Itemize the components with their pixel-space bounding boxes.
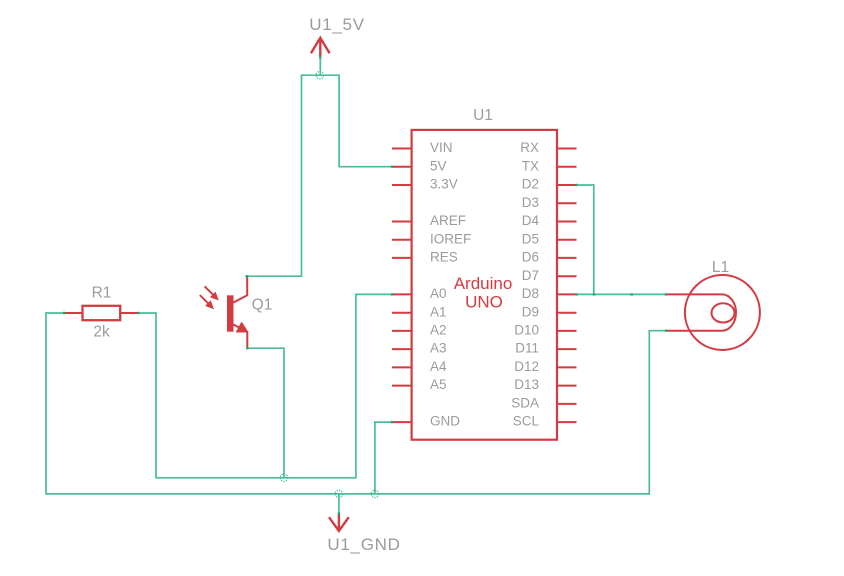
pin A5 (392, 385, 412, 387)
svg-text:D7: D7 (522, 268, 539, 283)
wire ground stem (338, 494, 340, 514)
svg-text:R1: R1 (92, 285, 112, 302)
pin A4 (392, 366, 412, 368)
pin D2 (557, 184, 577, 186)
svg-text:D2: D2 (522, 177, 539, 192)
svg-text:VIN: VIN (430, 140, 453, 155)
wire R1 right to Q1 emitter net to A0 (139, 294, 392, 477)
pin D4 (557, 221, 577, 223)
svg-text:A0: A0 (430, 286, 447, 301)
svg-text:A5: A5 (430, 377, 447, 392)
pin D10 (557, 330, 577, 332)
power symbol U1_5V arrow (311, 38, 330, 57)
resistor R1 (64, 306, 140, 320)
svg-text:3.3V: 3.3V (430, 177, 458, 192)
svg-text:TX: TX (522, 158, 539, 173)
junction ground symbol node (335, 490, 342, 497)
svg-text:RX: RX (520, 140, 539, 155)
pin SCL (557, 421, 577, 423)
speaker L1 (666, 275, 760, 350)
junction GND pin node (371, 490, 378, 497)
wire power stem (319, 57, 321, 75)
pin D13 (557, 385, 577, 387)
pin RX (557, 148, 577, 150)
pin D8 (557, 293, 577, 295)
svg-text:D3: D3 (522, 195, 539, 210)
svg-text:D10: D10 (514, 323, 539, 338)
svg-text:A1: A1 (430, 304, 447, 319)
pin SDA (557, 403, 577, 405)
pin AREF (392, 221, 412, 223)
pin TX (557, 166, 577, 168)
pin D5 (557, 239, 577, 241)
wire D8 to L1 top (577, 293, 667, 295)
svg-text:D9: D9 (522, 304, 539, 319)
svg-text:D5: D5 (522, 231, 539, 246)
svg-text:2k: 2k (93, 324, 110, 341)
svg-text:SCL: SCL (513, 414, 540, 429)
wire Q1 emitter to bottom node (247, 348, 284, 478)
pin D3 (557, 202, 577, 204)
wire 5V rail: collector branch to U1 5V pin (247, 75, 392, 276)
svg-text:A4: A4 (430, 359, 447, 374)
svg-text:U1_GND: U1_GND (327, 535, 400, 554)
pin 3.3V (392, 184, 412, 186)
svg-text:RES: RES (430, 250, 458, 265)
svg-text:D13: D13 (514, 377, 539, 392)
wire GND pin drop (375, 422, 392, 494)
svg-text:5V: 5V (430, 158, 447, 173)
pin 5V (392, 166, 412, 168)
pin GND (392, 421, 412, 423)
svg-text:IOREF: IOREF (430, 231, 471, 246)
pin D12 (557, 366, 577, 368)
wire endpoint dots (63, 312, 65, 314)
svg-text:D6: D6 (522, 250, 539, 265)
svg-text:D11: D11 (515, 341, 539, 356)
pin D9 (557, 312, 577, 314)
svg-text:D8: D8 (522, 286, 539, 301)
junction emitter node (280, 474, 287, 481)
pin A0 (392, 293, 412, 295)
pin A2 (392, 330, 412, 332)
svg-text:U1: U1 (473, 107, 493, 124)
IC U1 Arduino UNO body (412, 130, 557, 440)
svg-text:UNO: UNO (465, 293, 503, 312)
pin RES (392, 257, 412, 259)
pin IOREF (392, 239, 412, 241)
pin D11 (557, 348, 577, 350)
svg-text:A3: A3 (430, 341, 447, 356)
svg-text:Arduino: Arduino (454, 274, 513, 293)
junction power node (316, 72, 323, 79)
svg-text:U1_5V: U1_5V (309, 15, 364, 34)
svg-text:SDA: SDA (511, 396, 539, 411)
pin VIN (392, 148, 412, 150)
svg-text:Q1: Q1 (252, 297, 273, 314)
svg-text:D4: D4 (522, 213, 540, 228)
ground symbol U1_GND arrow (329, 513, 349, 531)
svg-text:L1: L1 (712, 259, 729, 276)
pin D6 (557, 257, 577, 259)
pin D7 (557, 275, 577, 277)
pin A1 (392, 312, 412, 314)
svg-text:GND: GND (430, 414, 460, 429)
svg-text:AREF: AREF (430, 213, 466, 228)
svg-text:A2: A2 (430, 323, 447, 338)
wire D2 to speaker net (577, 185, 594, 294)
pin A3 (392, 348, 412, 350)
svg-text:D12: D12 (514, 359, 539, 374)
transistor Q1 phototransistor (200, 276, 248, 348)
wire R1 left to bottom rail to L1 bottom (46, 313, 666, 494)
